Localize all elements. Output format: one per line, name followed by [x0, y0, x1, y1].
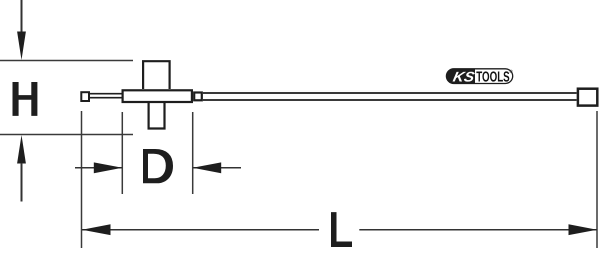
left shaft [90, 94, 122, 98]
label L [331, 212, 352, 247]
dimension line L with arrows [82, 224, 597, 235]
svg-text:KS: KS [452, 68, 477, 84]
extension line D right [192, 112, 194, 194]
extension line L right [596, 111, 598, 248]
right end block [578, 89, 597, 106]
extension line D left [121, 112, 123, 194]
extension line H bottom [0, 134, 133, 136]
KS Tools logo [446, 68, 513, 85]
svg-text:TOOLS: TOOLS [476, 69, 510, 85]
top block [143, 61, 170, 89]
center body [123, 90, 192, 102]
bottom tang [149, 103, 165, 129]
label D [143, 149, 173, 183]
dimension arrow D right [193, 162, 241, 173]
dimension arrow H bottom (up) [17, 135, 26, 202]
label H [13, 82, 38, 116]
extension line H top [0, 60, 133, 62]
right shaft [203, 93, 577, 100]
dimension arrow D left [75, 162, 122, 173]
left drive square [81, 92, 89, 101]
dimension arrow H top (down) [17, 0, 26, 60]
right connector [194, 93, 202, 101]
extension line L left [81, 111, 83, 248]
